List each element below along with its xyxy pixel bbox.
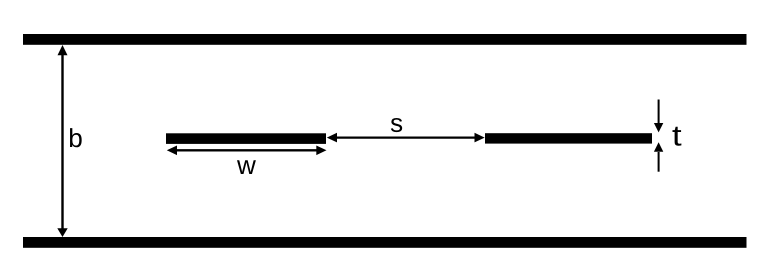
dimension arrows t (trace thickness) bbox=[654, 100, 663, 172]
label w bbox=[237, 160, 256, 174]
dimension arrow s (trace separation) bbox=[327, 133, 485, 143]
label b bbox=[70, 128, 82, 147]
top ground plane bbox=[23, 34, 747, 45]
label t bbox=[672, 127, 681, 146]
label s bbox=[391, 118, 402, 132]
dimension arrow w (trace width) bbox=[167, 146, 327, 156]
right trace conductor bbox=[485, 133, 652, 143]
bottom ground plane bbox=[23, 237, 747, 248]
left trace conductor (width w) bbox=[166, 133, 326, 144]
dimension arrow b (ground plane spacing) bbox=[57, 45, 67, 237]
